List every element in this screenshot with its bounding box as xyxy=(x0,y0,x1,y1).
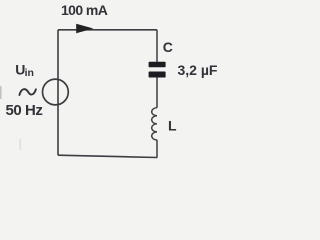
wire right upper (top corner to capacitor) xyxy=(156,30,158,62)
current arrow on top wire xyxy=(76,24,93,34)
wire left vertical xyxy=(57,30,59,155)
wire right lower (inductor to bottom corner) xyxy=(156,140,158,158)
wire bottom xyxy=(58,155,157,157)
wire top (left corner to right corner) xyxy=(58,29,157,31)
AC source U1 circle xyxy=(43,79,69,105)
edge artifact bottom-left streak xyxy=(20,139,22,150)
wire right middle (capacitor to inductor) xyxy=(156,77,158,108)
AC tilde symbol xyxy=(19,89,36,95)
inductor L coil xyxy=(152,108,157,140)
svg-text:in: in xyxy=(25,67,34,79)
svg-text:50 Hz: 50 Hz xyxy=(6,102,43,119)
svg-text:3,2 µF: 3,2 µF xyxy=(178,62,218,78)
svg-text:C: C xyxy=(163,39,173,55)
edge artifact left xyxy=(0,86,2,99)
svg-text:100 mA: 100 mA xyxy=(61,2,108,18)
svg-text:L: L xyxy=(168,117,177,133)
capacitor C plates xyxy=(149,62,166,68)
